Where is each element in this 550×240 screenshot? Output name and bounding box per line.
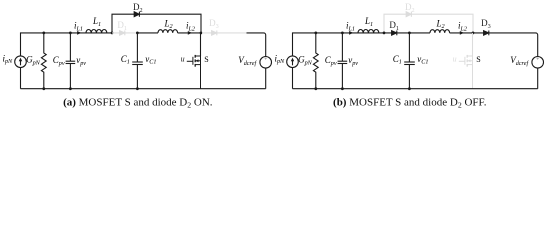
node dot bottom of G_pN <box>314 87 317 90</box>
node dot bottom of C_pv <box>69 87 72 90</box>
wire L2 to node Y <box>178 32 201 34</box>
wire below V_dcref <box>265 68 267 89</box>
node X dot (C1 top) <box>408 32 411 35</box>
wire D2 bypass rail <box>112 14 201 33</box>
inductor L2 <box>158 30 178 33</box>
resistor G_pN <box>41 33 46 89</box>
wire through diode D3 <box>474 32 519 34</box>
current arrow i_L1 <box>77 31 81 35</box>
node dot top of G_pN <box>314 32 317 35</box>
wire bottom return rail <box>21 88 266 90</box>
inductor L1 <box>86 30 107 33</box>
inductor L2 <box>430 30 450 33</box>
current source i_pN <box>15 56 27 68</box>
current arrow i_L2 <box>188 31 192 35</box>
wire L2 to node Y <box>450 32 473 34</box>
inductor L1 <box>358 29 379 32</box>
svg-text:(b) MOSFET S and diode D2 OFF.: (b) MOSFET S and diode D2 OFF. <box>333 96 487 109</box>
node Y dot (switch node) <box>200 32 203 35</box>
svg-text:S: S <box>476 55 480 64</box>
diode D3 <box>212 31 217 36</box>
node dot top of G_pN <box>42 32 45 35</box>
capacitor C1 <box>132 33 143 89</box>
node dot top of C_pv <box>341 32 344 35</box>
wire through diode D1 <box>384 32 409 34</box>
svg-text:(a) MOSFET S and diode D2 ON.: (a) MOSFET S and diode D2 ON. <box>63 96 213 109</box>
MOSFET S drain wire <box>472 33 474 56</box>
node dot bottom of C1 <box>408 87 411 90</box>
voltage source V_dcref <box>532 57 544 69</box>
MOSFET S drain wire <box>200 33 202 56</box>
diode D2 <box>406 12 411 17</box>
svg-text:u: u <box>453 55 457 64</box>
current arrow i_L2 <box>460 31 464 35</box>
diode D1 <box>392 31 397 36</box>
current arrow i_L1 <box>349 31 353 35</box>
wire D2 bypass rail <box>384 14 473 33</box>
transistor S (MOSFET symbol) <box>459 55 473 89</box>
transistor S (MOSFET symbol) <box>187 55 201 89</box>
node X dot (C1 top) <box>136 32 139 35</box>
wire through diode D3 <box>202 32 247 34</box>
node dot top of C_pv <box>69 32 72 35</box>
node dot at riser junction <box>383 32 386 35</box>
wire below V_dcref <box>537 68 539 89</box>
wire below current source <box>20 68 22 89</box>
current source i_pN <box>287 56 299 68</box>
node dot bottom of C1 <box>136 87 139 90</box>
svg-text:S: S <box>204 55 208 64</box>
node dot bottom of C_pv <box>341 87 344 90</box>
wire top-left rail <box>21 33 113 56</box>
capacitor C1 <box>404 33 415 89</box>
capacitor C_pv <box>66 33 76 89</box>
svg-text:u: u <box>181 55 185 64</box>
resistor G_pN <box>313 33 318 89</box>
node dot at riser junction <box>111 32 114 35</box>
capacitor C_pv <box>338 33 348 89</box>
wire bottom return rail <box>293 88 538 90</box>
wire C1 node to L2 <box>137 32 158 34</box>
node Y dot (switch node) <box>472 32 475 35</box>
wire below current source <box>292 68 294 89</box>
wire to output corner <box>519 33 538 57</box>
diode D3 <box>484 31 489 36</box>
diode D2 <box>134 12 139 17</box>
diode D1 <box>120 31 125 36</box>
wire C1 node to L2 <box>409 32 430 34</box>
voltage source V_dcref <box>260 57 272 69</box>
wire top-left rail <box>293 33 385 56</box>
wire through diode D1 <box>112 32 137 34</box>
wire to output corner <box>247 33 266 57</box>
node dot bottom of G_pN <box>42 87 45 90</box>
